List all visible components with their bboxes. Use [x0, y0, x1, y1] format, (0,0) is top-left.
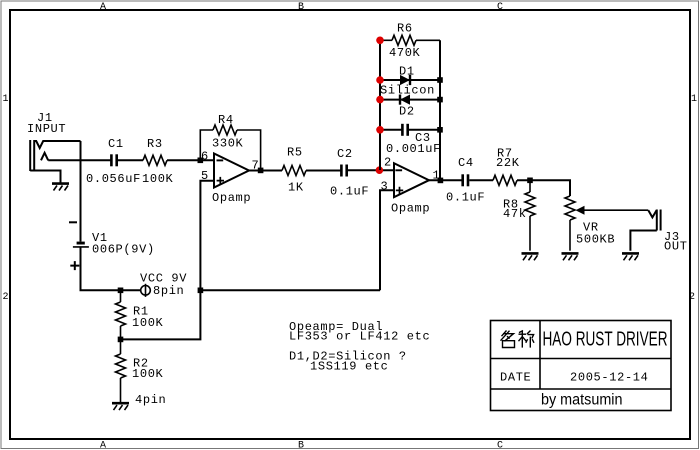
- svg-text:2: 2: [689, 292, 695, 303]
- wire C3 row left: [380, 129, 402, 131]
- svg-text:DATE: DATE: [500, 371, 531, 385]
- potentiometer VR: [565, 196, 648, 251]
- svg-text:Opamp: Opamp: [391, 202, 430, 216]
- diode D1: [400, 75, 410, 85]
- wire U1 output to R5: [249, 170, 282, 172]
- resistor R5: [282, 166, 306, 176]
- resistor R2: [116, 339, 126, 402]
- node red dot C3: [376, 126, 384, 134]
- svg-text:1K: 1K: [288, 181, 304, 195]
- jack J1: [30, 140, 80, 183]
- resistor R1: [116, 290, 126, 339]
- node red dot D1: [376, 76, 384, 84]
- jack J3: [630, 210, 660, 251]
- svg-text:INPUT: INPUT: [27, 122, 66, 136]
- svg-text:R6: R6: [397, 22, 413, 36]
- svg-text:HAO RUST DRIVER: HAO RUST DRIVER: [543, 329, 668, 351]
- capacitor C4: [461, 174, 469, 186]
- node junction R1 R2: [118, 337, 124, 343]
- svg-text:C2: C2: [337, 147, 353, 161]
- capacitor C1: [110, 154, 118, 166]
- wire C1 to R3: [118, 159, 143, 161]
- svg-text:0.056uF: 0.056uF: [86, 172, 141, 186]
- resistor R3: [143, 155, 167, 165]
- svg-text:006P(9V): 006P(9V): [92, 243, 155, 257]
- resistor R8: [525, 180, 535, 250]
- resistor R4 feedback loop: [200, 125, 260, 168]
- svg-text:470K: 470K: [389, 46, 421, 60]
- svg-text:C4: C4: [458, 156, 474, 170]
- svg-text:R4: R4: [218, 113, 234, 127]
- wire C2 to U2 pin 2: [348, 169, 394, 171]
- svg-text:C1: C1: [108, 137, 124, 151]
- svg-text:R3: R3: [147, 137, 163, 151]
- svg-text:D1: D1: [399, 65, 415, 79]
- svg-text:1: 1: [3, 94, 9, 105]
- svg-text:1: 1: [691, 94, 697, 105]
- resistor R7: [493, 175, 517, 185]
- node junction R7 R8: [527, 178, 533, 184]
- VB rail wire: [200, 289, 380, 291]
- svg-text:R5: R5: [287, 146, 303, 160]
- wire D1 row: [380, 79, 440, 81]
- svg-text:100K: 100K: [142, 172, 174, 186]
- resistor R6: [380, 35, 440, 45]
- svg-text:500KB: 500KB: [576, 232, 615, 246]
- svg-text:0.1uF: 0.1uF: [446, 191, 485, 205]
- wire J1 tip to C1: [48, 159, 111, 161]
- ground at J1: [52, 184, 69, 191]
- svg-text:2005-12-14: 2005-12-14: [570, 371, 649, 385]
- wire R3 to op-amp U1 pin 6: [167, 159, 214, 161]
- svg-text:C: C: [497, 2, 503, 13]
- wiper arrow VR: [576, 206, 585, 215]
- ground at VR: [562, 253, 579, 260]
- op-amp U1: [214, 154, 249, 188]
- svg-text:47k: 47k: [503, 207, 527, 221]
- node junction D1 right: [437, 77, 443, 83]
- diode D2: [400, 95, 410, 105]
- battery minus label: [69, 221, 77, 223]
- title block table: [491, 321, 672, 411]
- wire VB to divider: [121, 290, 201, 339]
- svg-text:22K: 22K: [496, 156, 520, 170]
- svg-text:100K: 100K: [132, 316, 164, 330]
- svg-text:B: B: [298, 441, 304, 450]
- capacitor C3: [401, 124, 409, 136]
- svg-text:Opamp: Opamp: [212, 191, 251, 205]
- svg-text:LF353 or LF412 etc: LF353 or LF412 etc: [289, 330, 430, 344]
- svg-text:D2: D2: [399, 105, 415, 119]
- svg-text:A: A: [100, 2, 106, 13]
- node junction VB rail: [198, 288, 204, 294]
- feedback left vertical wire: [379, 40, 381, 170]
- battery V1: [73, 242, 89, 247]
- wire C3 row right: [409, 129, 440, 131]
- node red dot D2: [376, 96, 384, 104]
- VCC power symbol: [141, 284, 151, 297]
- svg-text:6: 6: [201, 150, 209, 164]
- wire R7 to VR: [517, 180, 570, 196]
- node junction U1 output R4: [258, 168, 264, 174]
- wire C4 to R7: [469, 179, 493, 181]
- svg-text:A: A: [100, 441, 106, 450]
- ground at J3: [622, 253, 639, 260]
- svg-text:100K: 100K: [132, 367, 164, 381]
- op-amp U2: [394, 163, 429, 197]
- svg-text:2: 2: [3, 292, 9, 303]
- wire pin3 to VB rail: [380, 190, 394, 290]
- svg-text:0.1uF: 0.1uF: [330, 185, 369, 199]
- node junction R1 top: [118, 288, 124, 294]
- svg-text:C: C: [497, 441, 503, 450]
- wire U2 output to C4: [429, 179, 462, 181]
- svg-text:8pin: 8pin: [153, 284, 184, 298]
- wire J1 to battery V1: [80, 141, 82, 242]
- ground at R2: [112, 403, 129, 410]
- feedback right vertical wire: [439, 40, 441, 180]
- node red dot pin2: [376, 166, 384, 174]
- node junction pin6: [198, 158, 204, 164]
- wire pin5 to VB rail: [200, 181, 214, 290]
- wire D2 row: [380, 99, 440, 101]
- node junction D2 right: [437, 97, 443, 103]
- svg-text:OUT: OUT: [664, 240, 688, 254]
- svg-text:330K: 330K: [212, 137, 244, 151]
- svg-text:2: 2: [384, 156, 392, 170]
- svg-text:Silicon: Silicon: [380, 84, 435, 98]
- node red dot R6: [376, 37, 384, 45]
- svg-text:0.001uF: 0.001uF: [386, 142, 441, 156]
- ground at R8: [522, 253, 539, 260]
- capacitor C2: [340, 165, 348, 177]
- svg-text:by matsumin: by matsumin: [541, 392, 623, 409]
- node junction U2 output: [438, 178, 444, 184]
- svg-text:4pin: 4pin: [135, 393, 166, 407]
- wire R5 to C2: [306, 170, 341, 172]
- node junction C3 right: [437, 127, 443, 133]
- svg-text:B: B: [298, 2, 304, 13]
- svg-text:1SS119 etc: 1SS119 etc: [310, 359, 389, 373]
- battery plus label: [70, 261, 79, 270]
- wire battery to VCC rail: [81, 247, 141, 290]
- kanji 名称: [501, 331, 535, 348]
